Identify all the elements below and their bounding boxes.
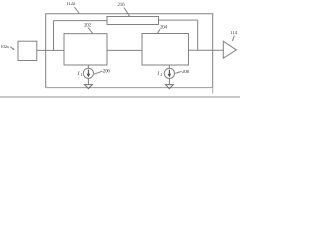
label 208 xyxy=(182,70,190,75)
leader arrow for 102a xyxy=(10,47,14,50)
label I1 xyxy=(77,71,83,77)
ground below I2 xyxy=(168,79,170,85)
leader for 202 xyxy=(88,28,93,34)
wire bypass left horizontal xyxy=(54,20,108,22)
leader for 206 xyxy=(94,71,102,74)
svg-text:1: 1 xyxy=(80,72,82,77)
leader for 112a xyxy=(75,7,80,14)
current source 206 (I1) xyxy=(83,68,93,78)
label 206 xyxy=(103,69,111,74)
label 204 xyxy=(160,25,168,30)
label I2 xyxy=(156,71,162,77)
wire bypass right horizontal xyxy=(159,19,198,21)
wire output xyxy=(189,49,224,51)
wire stub to current source I2 xyxy=(168,65,170,68)
current source 208 (I2) xyxy=(164,68,174,78)
svg-text:102a: 102a xyxy=(0,44,8,49)
wire stub to current source I1 xyxy=(87,65,89,68)
block 204 xyxy=(142,34,189,66)
label 102a xyxy=(0,44,8,49)
scan overshoot on right edge xyxy=(212,88,214,94)
wire input xyxy=(37,49,64,51)
leader for 114 xyxy=(232,35,234,41)
svg-text:112a: 112a xyxy=(66,2,76,7)
block 202 xyxy=(64,34,107,65)
label 112a xyxy=(66,2,76,7)
svg-text:208: 208 xyxy=(182,70,190,75)
leader for 208 xyxy=(175,71,181,73)
page rule line at bottom xyxy=(0,96,240,98)
label 202 xyxy=(84,23,92,28)
outer block 112a xyxy=(46,14,213,88)
wire bypass right vertical xyxy=(197,20,199,50)
wire between 202 and 204 xyxy=(107,49,142,51)
svg-text:2: 2 xyxy=(160,72,162,77)
svg-text:204: 204 xyxy=(160,25,168,30)
input block 102a xyxy=(18,41,37,60)
ground below I1 xyxy=(87,78,89,84)
label 114 xyxy=(230,31,237,36)
leader for 204 xyxy=(157,29,160,33)
component box 216 xyxy=(107,17,159,25)
svg-text:202: 202 xyxy=(84,23,92,28)
amplifier 114 xyxy=(223,41,236,58)
svg-text:206: 206 xyxy=(103,69,111,74)
label 216 xyxy=(118,3,126,8)
svg-text:216: 216 xyxy=(118,3,126,8)
leader for 216 xyxy=(124,8,130,17)
wire bypass left vertical xyxy=(53,21,55,51)
